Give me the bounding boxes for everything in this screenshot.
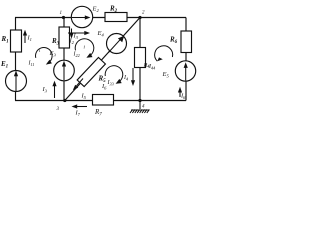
resistor R4 <box>135 48 146 68</box>
resistor R6 <box>181 31 192 53</box>
mesh loop arrow B <box>75 39 94 58</box>
ground <box>130 101 150 114</box>
arrow I3 branch up <box>52 81 56 98</box>
wire diagonal branch <box>65 18 140 101</box>
node 2 <box>138 16 141 19</box>
node 1 <box>62 16 65 19</box>
svg-text:I33: I33 <box>107 80 114 87</box>
resistor R3 <box>59 27 70 48</box>
resistor R7 <box>93 95 114 106</box>
wire top <box>15 17 186 19</box>
arrow I4 <box>131 68 135 86</box>
mesh loop arrow C <box>105 66 123 84</box>
arrow I6 <box>178 87 182 97</box>
source E2 <box>71 6 92 27</box>
resistor R1 <box>11 30 22 52</box>
arrow I7 <box>72 104 88 108</box>
svg-text:1: 1 <box>60 11 63 16</box>
wire left <box>15 18 17 101</box>
mesh loop arrow D <box>155 46 173 63</box>
arrow I3 <box>69 29 73 39</box>
node 3 <box>63 99 66 102</box>
wire middle branch <box>63 18 65 101</box>
svg-text:I11: I11 <box>28 61 35 68</box>
wire right <box>185 18 187 101</box>
node 4 <box>138 99 141 102</box>
wire bottom <box>15 100 186 102</box>
wire branch node2 <box>139 18 141 101</box>
arrow I2 <box>68 31 90 35</box>
resistor R2 <box>105 13 127 22</box>
source E4 <box>107 34 127 54</box>
svg-text:I22: I22 <box>73 52 80 59</box>
source E5 <box>175 61 195 81</box>
arrow I5 diagonal <box>73 79 83 91</box>
mesh loop arrow A <box>36 48 53 65</box>
source E3 <box>54 60 75 81</box>
arrow I1 <box>23 30 27 43</box>
svg-text:I4: I4 <box>123 75 128 82</box>
resistor R5 <box>77 57 105 86</box>
svg-text:I44: I44 <box>148 64 155 71</box>
source E1 <box>6 71 27 92</box>
